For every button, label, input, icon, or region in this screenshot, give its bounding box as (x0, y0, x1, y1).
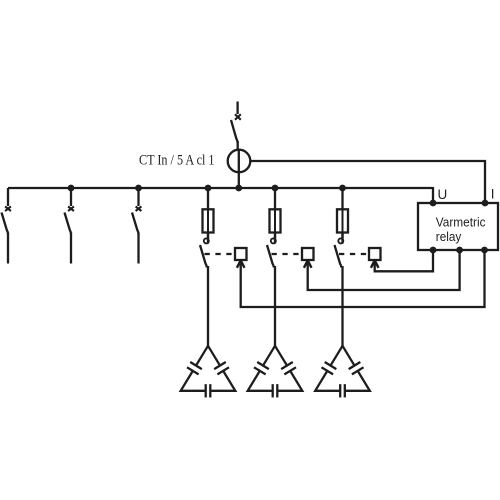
node busbar-feeder3 (135, 185, 142, 192)
capacitor bank C2 delta (248, 346, 303, 398)
busbar wire to relay U input (432, 187, 434, 203)
actuator box A1 (235, 248, 247, 260)
node relay I (482, 200, 489, 207)
branch 3 wire busbar to fuse (341, 188, 343, 239)
current transformer CT circle (228, 150, 251, 173)
capacitor bank C3 delta (315, 346, 370, 398)
CT primary wire through circle (238, 150, 240, 188)
actuator box A3 (369, 248, 381, 260)
node busbar-branch3 (339, 185, 346, 192)
busbar (8, 187, 433, 189)
wire K2 to capacitor bank (274, 266, 276, 347)
contactor K3 blade (335, 245, 342, 268)
control wire relay out2 to A2 (308, 250, 460, 290)
contactor K1 blade (200, 245, 207, 268)
contactor K1 hook (204, 238, 209, 243)
svg-text:U: U (438, 187, 448, 202)
control wire relay out3 to A1 (241, 250, 485, 307)
svg-text:relay: relay (436, 229, 462, 244)
contactor K2 blade (267, 245, 274, 268)
node relay out2 (456, 247, 463, 254)
plug-in connector mark (x) incoming (235, 114, 241, 120)
branch 2 wire busbar to fuse (274, 188, 276, 239)
node relay out3 (481, 247, 488, 254)
actuator arrow A1 (237, 260, 245, 268)
wire blade to CT (237, 141, 239, 151)
feeder 3 disconnector (132, 188, 141, 264)
contactor K3 hook (338, 238, 343, 243)
varmetric relay box U1 (418, 203, 498, 250)
svg-text:CT In / 5 A cl 1: CT In / 5 A cl 1 (139, 151, 215, 168)
fuse F2 (270, 209, 281, 232)
node busbar-feeder2 (68, 185, 75, 192)
branch 1 wire busbar to fuse (207, 188, 209, 239)
actuator arrow A3 (371, 260, 379, 268)
node busbar-CT (235, 185, 242, 192)
svg-text:I: I (491, 187, 495, 202)
node relay out1 (430, 247, 437, 254)
svg-text:Varmetric: Varmetric (436, 214, 486, 229)
incoming supply wire (236, 102, 238, 115)
wire K3 to capacitor bank (341, 266, 343, 347)
actuator box A2 (302, 248, 314, 260)
wire K1 to capacitor bank (207, 266, 209, 347)
disconnector switch Q0 blade (231, 120, 238, 143)
feeder 2 disconnector (65, 188, 74, 264)
fuse F1 (203, 209, 214, 232)
dashed control link K3 (339, 253, 369, 255)
node busbar-branch1 (205, 185, 212, 192)
node relay U (430, 200, 437, 207)
contactor K2 hook (271, 238, 276, 243)
node busbar-branch2 (272, 185, 279, 192)
control wire relay out1 to A3 (375, 250, 433, 271)
capacitor bank C1 delta (181, 346, 236, 398)
dashed control link K2 (272, 253, 303, 255)
actuator arrow A2 (304, 260, 312, 268)
fuse F3 (337, 209, 348, 232)
CT secondary wire to relay I input (250, 161, 485, 203)
dashed control link K1 (205, 253, 236, 255)
feeder 1 disconnector (2, 188, 11, 264)
